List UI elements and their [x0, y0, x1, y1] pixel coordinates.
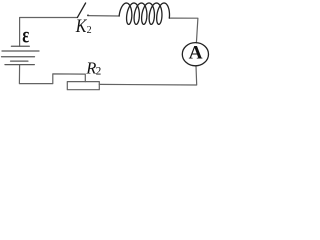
svg-text:ε: ε	[22, 23, 29, 48]
svg-text:2: 2	[96, 66, 102, 78]
svg-text:A: A	[189, 42, 203, 63]
svg-text:2: 2	[87, 25, 92, 36]
